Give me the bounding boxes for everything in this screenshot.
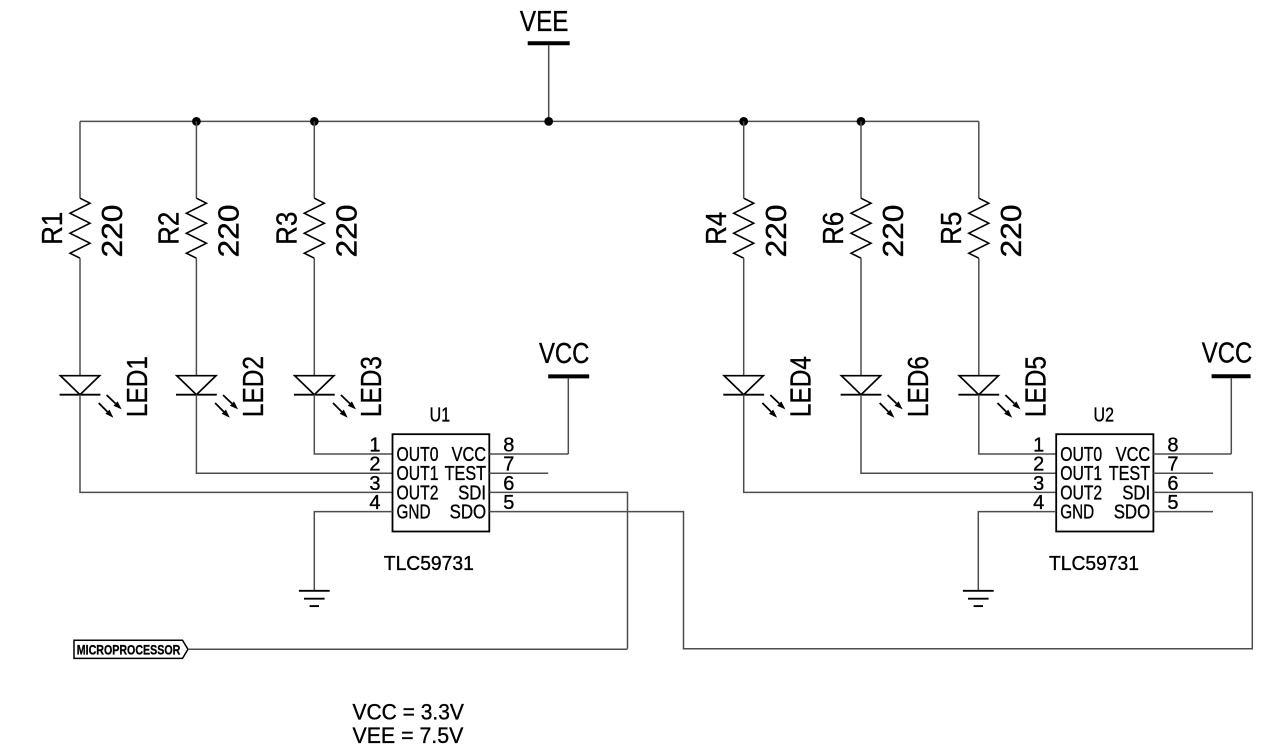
svg-text:VEE = 7.5V: VEE = 7.5V (353, 723, 464, 748)
svg-text:220: 220 (332, 205, 364, 258)
U1 pin 7 (TEST) (445, 454, 515, 486)
U1 pin 5 (SDO) (450, 492, 515, 523)
svg-text:SDO: SDO (450, 502, 487, 524)
svg-text:R3: R3 (272, 212, 304, 245)
junction at R2 (192, 117, 201, 126)
wire U2 pin 5 SDO stub (1153, 511, 1213, 513)
U2 pin 8 (VCC) (1116, 435, 1179, 467)
wire MICROPROCESSOR to U1 SDI (188, 648, 628, 650)
LED LED5 (958, 376, 1020, 418)
wire VEE to rail (548, 45, 550, 121)
U1 pin 3 (OUT2) (369, 473, 438, 505)
svg-text:5: 5 (1167, 492, 1178, 514)
svg-text:4: 4 (369, 492, 380, 514)
wire rail to R5 (978, 121, 980, 198)
svg-text:5: 5 (503, 492, 514, 514)
junction at R6 (857, 117, 866, 126)
wire U1 pin 8 to VCC (489, 453, 568, 455)
wire R1 to LED1 (79, 258, 81, 376)
wire LED6 to U2 pin 2 (861, 395, 1056, 474)
svg-text:U2: U2 (1094, 404, 1115, 426)
svg-text:VEE: VEE (520, 6, 569, 38)
wire LED3 to U1 pin 1 (314, 395, 392, 454)
wire rail to R2 (195, 121, 197, 198)
svg-text:U1: U1 (430, 404, 451, 426)
svg-text:LED5: LED5 (1021, 356, 1053, 417)
svg-text:220: 220 (214, 205, 246, 258)
power symbol VCC (U1) (539, 338, 590, 377)
svg-text:LED1: LED1 (122, 356, 154, 417)
svg-text:R1: R1 (37, 212, 69, 245)
svg-text:4: 4 (1033, 492, 1044, 514)
U2 pin 6 (SDI) (1122, 473, 1178, 505)
LED LED4 (723, 376, 785, 418)
wire U2 pin 7 TEST stub (1153, 472, 1213, 474)
LED LED6 (841, 376, 903, 418)
svg-text:VCC: VCC (539, 338, 590, 370)
svg-text:220: 220 (97, 205, 129, 258)
wire LED4 to U2 pin 3 (744, 395, 1056, 493)
U1 pin 4 (GND) (369, 492, 430, 523)
svg-text:R4: R4 (701, 212, 733, 245)
junction at R4 (739, 117, 748, 126)
wire LED5 to U2 pin 1 (979, 395, 1056, 454)
wire U2 GND pin to ground (978, 512, 1056, 591)
svg-text:220: 220 (878, 205, 910, 258)
resistor R3 (304, 198, 324, 258)
svg-text:220: 220 (761, 205, 793, 258)
power symbol VCC (U2) (1202, 337, 1253, 376)
LED LED2 (176, 376, 238, 418)
svg-text:LED2: LED2 (238, 356, 270, 417)
wire rail to R1 (79, 121, 81, 198)
junction at VEE (544, 117, 553, 126)
LED LED1 (60, 376, 122, 418)
wire LED1 to U1 pin 3 (80, 395, 393, 493)
U2 pin 5 (SDO) (1114, 492, 1179, 523)
wire R3 to LED3 (313, 258, 315, 376)
ground (U1) (299, 591, 330, 606)
U2 pin 3 (OUT2) (1033, 473, 1102, 505)
wire U1 pin 6 SDI to MICROPROCESSOR (489, 492, 627, 648)
U1 pin 1 (OUT0) (369, 435, 438, 467)
svg-text:LED3: LED3 (356, 356, 388, 417)
U1 pin 8 (VCC) (452, 435, 515, 467)
svg-text:MICROPROCESSOR: MICROPROCESSOR (77, 643, 181, 659)
resistor R1 (70, 198, 90, 258)
wire LED2 to U1 pin 2 (196, 395, 392, 474)
wire rail to R3 (313, 121, 315, 198)
net flag MICROPROCESSOR (74, 640, 188, 658)
U2 pin 4 (GND) (1033, 492, 1094, 523)
junction at R3 (310, 117, 319, 126)
svg-text:TLC59731: TLC59731 (384, 553, 474, 575)
U2 pin 7 (TEST) (1109, 454, 1179, 486)
svg-text:GND: GND (1060, 502, 1094, 524)
power symbol VEE (520, 6, 570, 43)
svg-text:TLC59731: TLC59731 (1049, 553, 1139, 575)
svg-text:R2: R2 (154, 212, 186, 245)
U2 pin 2 (OUT1) (1033, 454, 1102, 486)
wire U1 GND pin to ground (314, 512, 392, 591)
wire R2 to LED2 (195, 258, 197, 376)
U1 pin 6 (SDI) (458, 473, 514, 505)
U2 pin 1 (OUT0) (1033, 435, 1102, 467)
wire R5 to LED5 (978, 258, 980, 376)
svg-text:VCC: VCC (1202, 337, 1253, 369)
svg-text:VCC = 3.3V: VCC = 3.3V (353, 699, 465, 724)
IC U2 box (1056, 434, 1153, 531)
resistor R5 (969, 198, 989, 258)
svg-text:R5: R5 (936, 212, 968, 245)
svg-text:220: 220 (996, 205, 1028, 258)
resistor R6 (851, 198, 871, 258)
wire rail to R4 (743, 121, 745, 198)
wire U2 pin 8 to VCC (1153, 453, 1231, 455)
wire R6 to LED6 (860, 258, 862, 376)
svg-text:SDO: SDO (1114, 502, 1151, 524)
wire rail to R6 (860, 121, 862, 198)
resistor R4 (734, 198, 754, 258)
wire U1 pin 7 TEST stub (489, 472, 548, 474)
U1 pin 2 (OUT1) (369, 454, 438, 486)
svg-text:LED6: LED6 (903, 356, 935, 417)
wire R4 to LED4 (743, 258, 745, 376)
svg-text:LED4: LED4 (786, 356, 818, 417)
IC U1 box (393, 434, 490, 531)
ground (U2) (963, 591, 994, 606)
resistor R2 (186, 198, 206, 258)
svg-text:R6: R6 (818, 212, 850, 245)
wire U1 pin 5 SDO to U2 SDI (489, 492, 1252, 648)
svg-text:GND: GND (397, 502, 431, 524)
LED LED3 (294, 376, 356, 418)
wire VEE rail (80, 120, 979, 122)
